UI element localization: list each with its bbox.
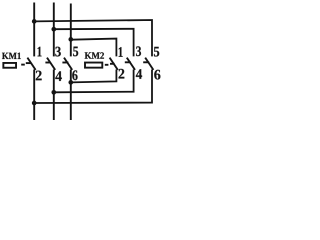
wire: phase L3 vertical into KM1 pin 5 [70, 4, 72, 57]
KM2 contact 1-2 linkage tick [110, 63, 115, 65]
wire: KM1 pin 6 down to motor lead W [70, 70, 72, 121]
linkage dash between KM1 box and contact 1 [21, 64, 25, 66]
linkage dash between KM2 box and contact 1 [105, 64, 109, 66]
label KM1 [2, 53, 21, 59]
contactor KM2 operator box [85, 63, 102, 68]
wire: phase L2 vertical into KM1 pin 3 [53, 3, 55, 57]
junction: L3 tap node [68, 37, 73, 42]
pin number 5 (KM2) [154, 47, 159, 57]
pin number 6 (KM1) [72, 70, 77, 80]
pin number 4 (KM2) [136, 69, 142, 79]
pin number 3 (KM1) [55, 47, 60, 57]
pin number 1 (KM2) [119, 47, 123, 57]
wire: bus from L1 tap to KM2 pin 5 [34, 20, 152, 56]
junction: KM2-2 to KM1-6 node [68, 80, 73, 85]
contactor KM2 contact 5-6 blade [145, 58, 153, 70]
pin number 2 (KM2) [119, 69, 125, 79]
junction: L1 tap node [32, 19, 37, 24]
pin number 2 (KM1) [36, 71, 42, 81]
wire: KM1 pin 2 down to motor lead U [33, 70, 35, 121]
label KM2 [85, 52, 104, 58]
contactor KM2 contact 3-4 blade [127, 58, 135, 70]
contactor KM1 contact 3-4 blade [47, 58, 55, 70]
pin number 6 (KM2) [154, 70, 160, 80]
junction: KM2-4 to KM1-4 node [51, 90, 56, 95]
wire: bus from L3 tap to KM2 pin 1 [71, 39, 117, 57]
pin number 3 (KM2) [136, 46, 141, 56]
wire: KM2 pin 6 down and across to KM1 pin 2 node [34, 70, 152, 104]
junction: KM2-6 to KM1-2 node [32, 101, 37, 106]
pin number 5 (KM1) [73, 47, 78, 57]
contactor KM1 contact 1-2 blade [27, 58, 35, 70]
wire: KM1 pin 4 down to motor lead V [53, 70, 55, 121]
KM2 contact 5-6 linkage tick [143, 61, 149, 63]
wire: KM2 pin 2 down and across to KM1 pin 6 node [71, 70, 117, 83]
KM2 contact 3-4 linkage tick [125, 61, 131, 63]
wire: bus from L2 tap to KM2 pin 3 [54, 29, 134, 57]
contactor KM1 contact 5-6 blade [64, 58, 72, 70]
KM1 contact 5-6 linkage tick [62, 62, 68, 64]
wire: KM2 pin 4 down and across to KM1 pin 4 node [54, 70, 134, 93]
KM1 contact 1-2 linkage tick [26, 62, 31, 64]
contactor KM2 contact 1-2 blade [110, 58, 118, 70]
wire: phase L1 vertical into KM1 pin 1 [33, 3, 35, 57]
contactor KM1 operator box [3, 63, 16, 68]
pin number 4 (KM1) [55, 71, 61, 81]
KM1 contact 3-4 linkage tick [45, 62, 50, 64]
pin number 1 (KM1) [38, 47, 42, 57]
junction: L2 tap node [51, 27, 56, 32]
